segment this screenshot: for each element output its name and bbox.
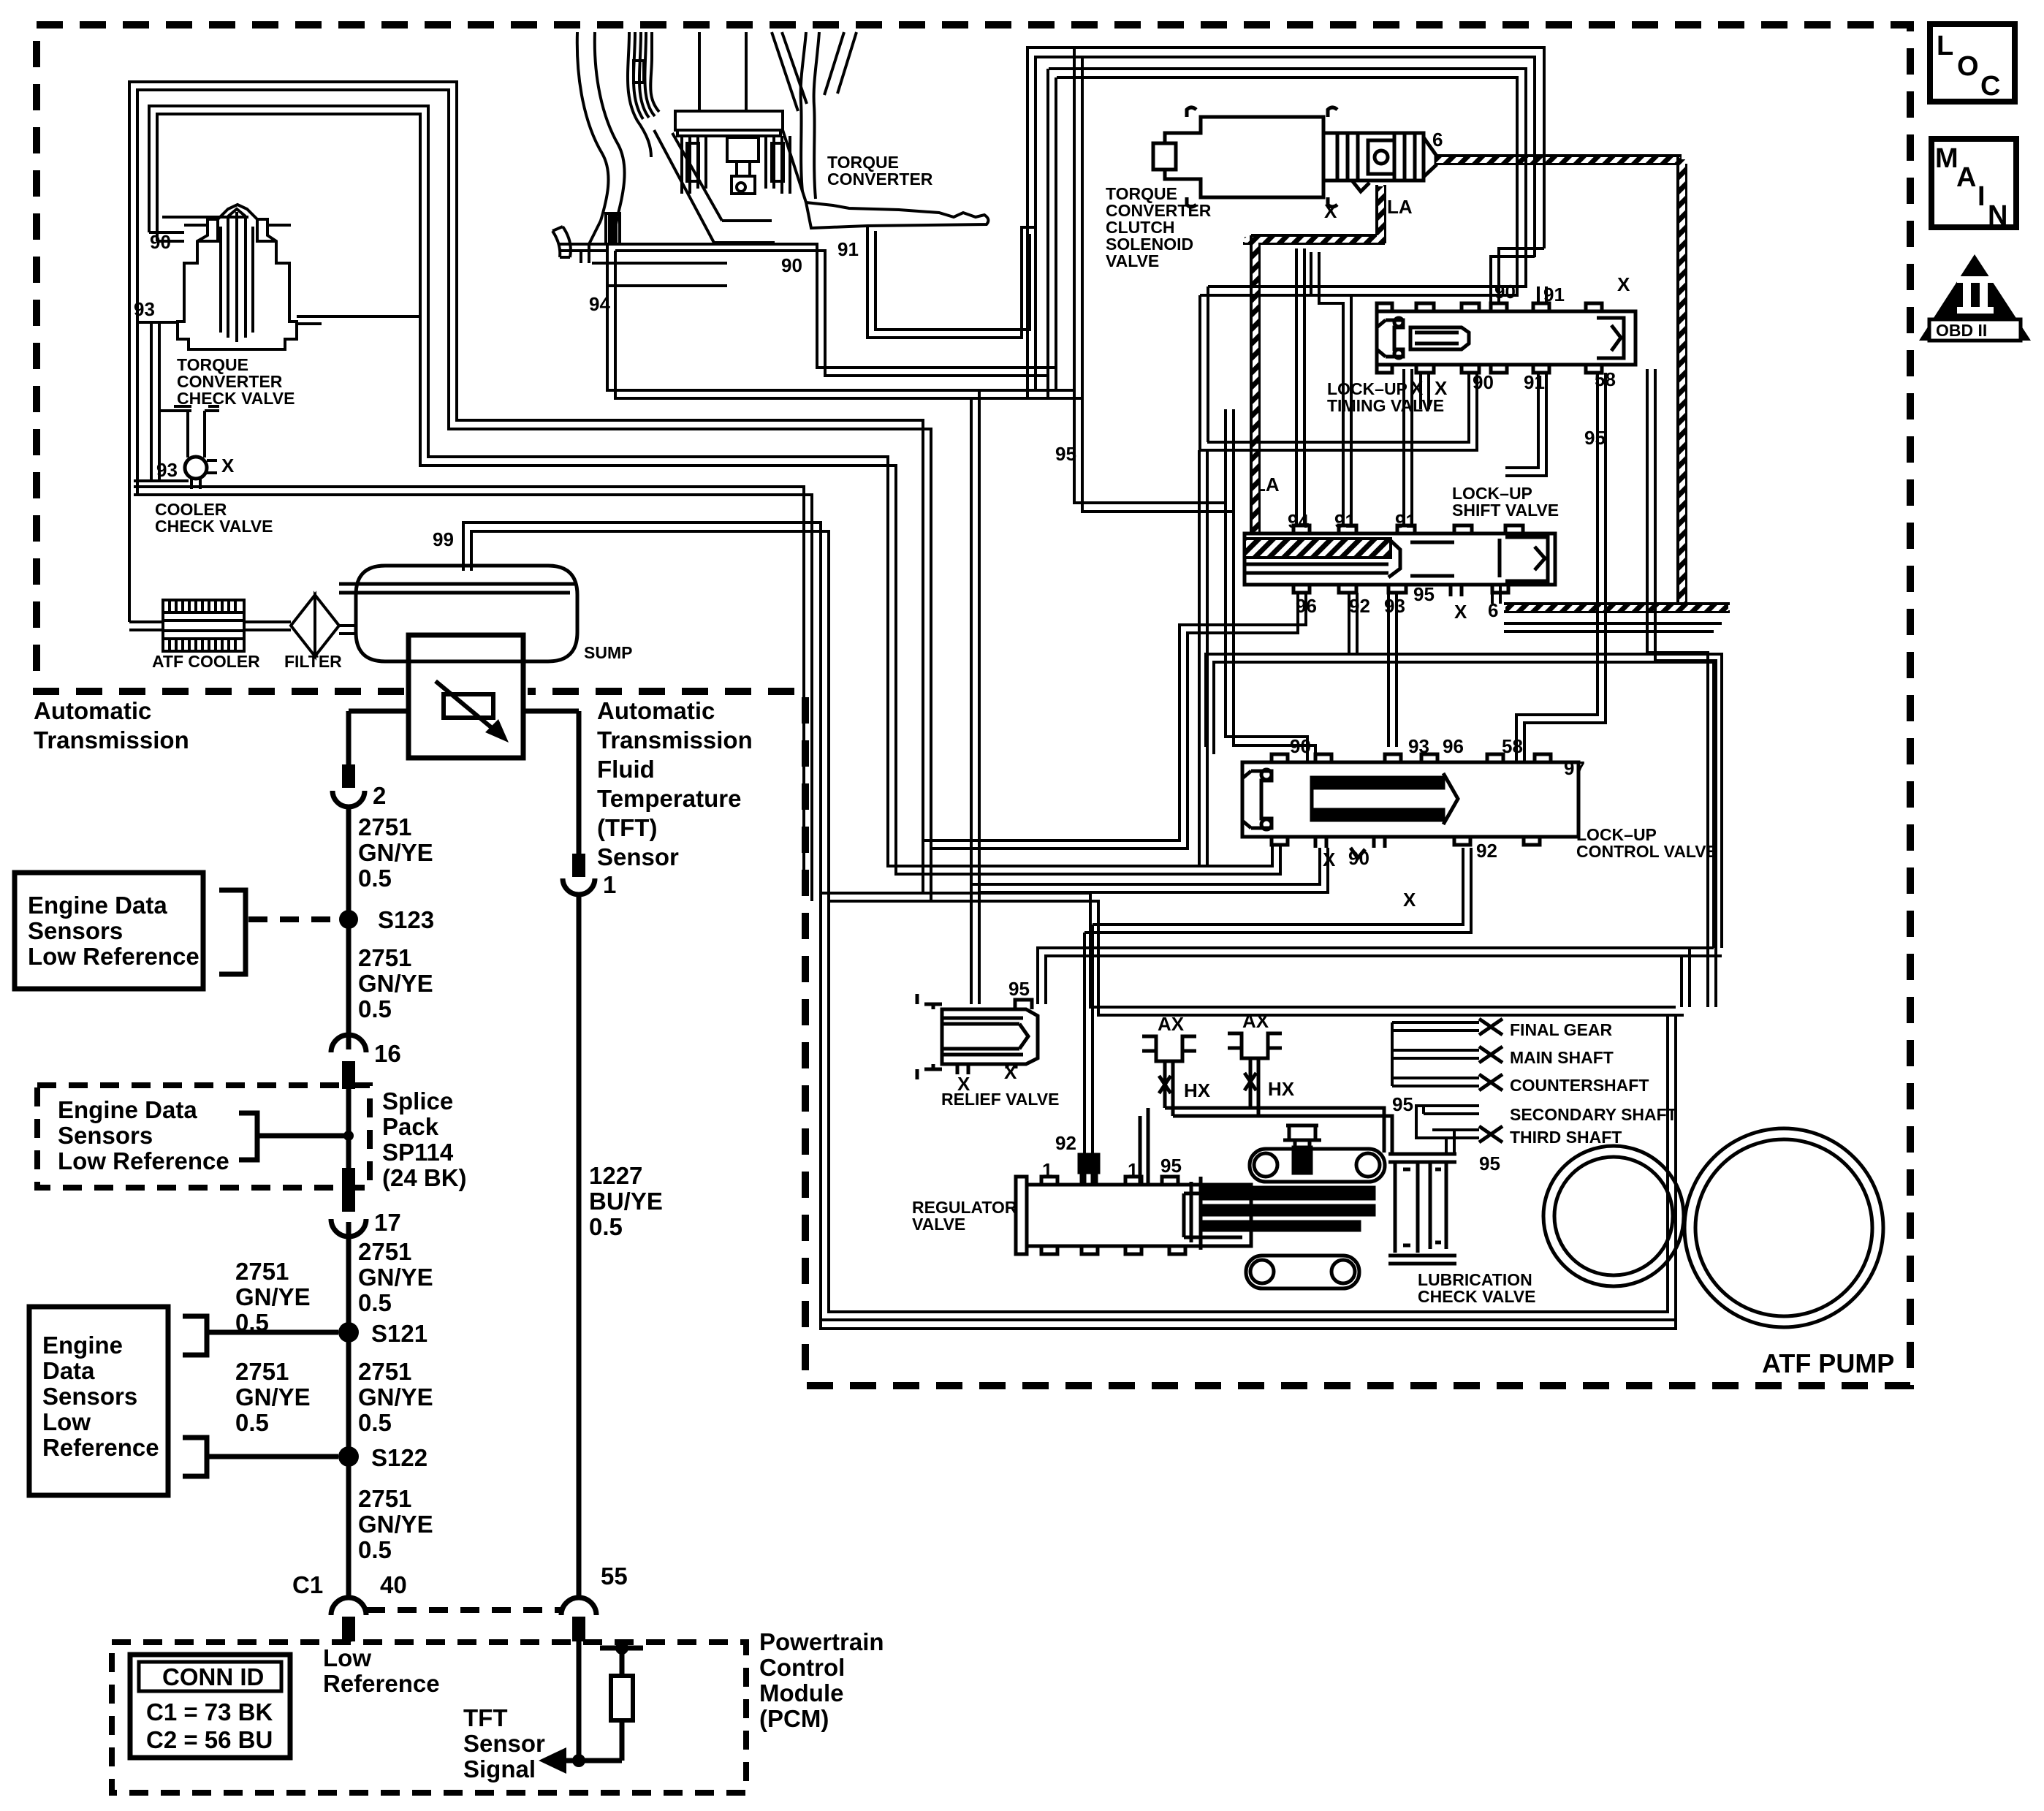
svg-text:2: 2: [373, 782, 386, 809]
svg-text:Automatic: Automatic: [597, 697, 715, 724]
svg-text:Sensor: Sensor: [463, 1730, 545, 1757]
svg-text:GN/YE: GN/YE: [235, 1283, 311, 1310]
svg-text:GN/YE: GN/YE: [358, 1264, 433, 1291]
svg-text:TIMING VALVE: TIMING VALVE: [1327, 396, 1444, 415]
svg-text:Splice: Splice: [382, 1087, 453, 1115]
svg-text:Engine Data: Engine Data: [28, 892, 167, 919]
svg-text:CHECK VALVE: CHECK VALVE: [177, 389, 295, 408]
svg-text:S121: S121: [371, 1320, 428, 1347]
svg-text:Fluid: Fluid: [597, 756, 655, 783]
svg-text:A: A: [1956, 162, 1976, 193]
svg-text:2751: 2751: [358, 1485, 411, 1512]
svg-text:Reference: Reference: [323, 1670, 440, 1697]
svg-text:Engine: Engine: [42, 1332, 123, 1359]
svg-text:16: 16: [374, 1040, 401, 1067]
svg-text:Sensors: Sensors: [42, 1383, 137, 1410]
svg-text:1227: 1227: [589, 1162, 642, 1189]
svg-text:SECONDARY SHAFT: SECONDARY SHAFT: [1510, 1105, 1677, 1124]
svg-text:2751: 2751: [358, 1238, 411, 1265]
svg-text:GN/YE: GN/YE: [358, 839, 433, 866]
svg-text:ATF COOLER: ATF COOLER: [152, 652, 260, 671]
svg-text:90: 90: [781, 254, 802, 276]
svg-text:LA: LA: [1387, 196, 1413, 218]
svg-text:Low Reference: Low Reference: [58, 1147, 229, 1174]
svg-text:Pack: Pack: [382, 1113, 439, 1140]
svg-text:HX: HX: [1184, 1079, 1211, 1101]
svg-text:17: 17: [374, 1209, 401, 1236]
svg-text:X: X: [1435, 377, 1448, 399]
svg-text:Sensor: Sensor: [597, 843, 679, 870]
svg-text:C1 = 73 BK: C1 = 73 BK: [146, 1698, 273, 1725]
svg-text:95: 95: [1392, 1093, 1413, 1115]
svg-text:SP114: SP114: [382, 1139, 454, 1166]
svg-text:Powertrain: Powertrain: [759, 1628, 884, 1655]
svg-text:GN/YE: GN/YE: [358, 970, 433, 997]
svg-text:Module: Module: [759, 1679, 843, 1706]
svg-text:C1: C1: [292, 1571, 323, 1598]
svg-text:Automatic: Automatic: [34, 697, 151, 724]
svg-text:0.5: 0.5: [358, 995, 392, 1022]
svg-text:I: I: [1977, 181, 1986, 212]
svg-text:Sensors: Sensors: [28, 917, 123, 944]
svg-text:OBD II: OBD II: [1936, 321, 1987, 340]
svg-text:CHECK VALVE: CHECK VALVE: [1418, 1287, 1535, 1306]
svg-text:94: 94: [1288, 510, 1309, 532]
svg-text:CONVERTER: CONVERTER: [827, 170, 933, 189]
svg-text:91: 91: [837, 238, 859, 260]
svg-text:C: C: [1980, 71, 2000, 102]
svg-text:55: 55: [601, 1563, 628, 1590]
svg-text:C2 = 56 BU: C2 = 56 BU: [146, 1726, 273, 1753]
svg-text:92: 92: [1349, 595, 1370, 617]
svg-text:N: N: [1988, 200, 2007, 231]
svg-text:CHECK VALVE: CHECK VALVE: [155, 517, 273, 536]
svg-text:Control: Control: [759, 1654, 845, 1681]
svg-text:GN/YE: GN/YE: [235, 1383, 311, 1411]
svg-text:COUNTERSHAFT: COUNTERSHAFT: [1510, 1076, 1649, 1095]
svg-text:VALVE: VALVE: [912, 1215, 965, 1234]
svg-text:X: X: [957, 1073, 970, 1095]
svg-text:VALVE: VALVE: [1106, 251, 1159, 270]
svg-text:X: X: [1403, 889, 1416, 911]
svg-text:GN/YE: GN/YE: [358, 1383, 433, 1411]
svg-text:95: 95: [1160, 1155, 1182, 1177]
svg-text:2751: 2751: [358, 813, 411, 840]
svg-text:Low: Low: [42, 1408, 91, 1435]
svg-text:(TFT): (TFT): [597, 814, 657, 841]
svg-text:0.5: 0.5: [235, 1409, 269, 1436]
svg-text:X: X: [1454, 601, 1467, 623]
svg-text:L: L: [1937, 31, 1953, 61]
svg-text:O: O: [1957, 51, 1979, 82]
svg-text:S122: S122: [371, 1444, 428, 1471]
svg-text:S123: S123: [378, 906, 434, 933]
svg-text:M: M: [1935, 143, 1958, 174]
svg-text:92: 92: [1476, 840, 1497, 862]
svg-text:2751: 2751: [358, 1358, 411, 1385]
svg-text:Temperature: Temperature: [597, 785, 741, 812]
svg-text:0.5: 0.5: [358, 1289, 392, 1316]
svg-text:1: 1: [603, 871, 616, 898]
svg-text:TFT: TFT: [463, 1704, 507, 1731]
svg-text:95: 95: [1584, 427, 1606, 449]
svg-text:AX: AX: [1242, 1010, 1269, 1032]
svg-text:Reference: Reference: [42, 1434, 159, 1461]
svg-text:SUMP: SUMP: [584, 643, 632, 662]
svg-text:X: X: [1617, 273, 1630, 295]
svg-text:0.5: 0.5: [358, 1409, 392, 1436]
svg-text:92: 92: [1055, 1132, 1076, 1154]
svg-text:ATF PUMP: ATF PUMP: [1762, 1348, 1894, 1378]
svg-text:40: 40: [380, 1571, 407, 1598]
svg-text:99: 99: [433, 528, 454, 550]
svg-text:BU/YE: BU/YE: [589, 1188, 663, 1215]
svg-text:2751: 2751: [235, 1258, 289, 1285]
svg-text:96: 96: [1443, 735, 1464, 757]
svg-text:CONTROL VALVE: CONTROL VALVE: [1576, 842, 1717, 861]
svg-text:Data: Data: [42, 1357, 95, 1384]
svg-text:0.5: 0.5: [358, 1536, 392, 1563]
svg-text:2751: 2751: [358, 944, 411, 971]
svg-text:Signal: Signal: [463, 1755, 536, 1782]
svg-text:0.5: 0.5: [358, 865, 392, 892]
svg-text:GN/YE: GN/YE: [358, 1511, 433, 1538]
svg-text:2751: 2751: [235, 1358, 289, 1385]
svg-text:Transmission: Transmission: [597, 726, 753, 753]
svg-text:6: 6: [1432, 129, 1443, 151]
svg-text:Transmission: Transmission: [34, 726, 189, 753]
svg-text:Low Reference: Low Reference: [28, 943, 200, 970]
svg-text:X: X: [221, 455, 235, 477]
svg-text:0.5: 0.5: [589, 1213, 623, 1240]
svg-text:Sensors: Sensors: [58, 1122, 153, 1149]
svg-text:(PCM): (PCM): [759, 1705, 829, 1732]
svg-text:MAIN SHAFT: MAIN SHAFT: [1510, 1048, 1614, 1067]
svg-text:CONN ID: CONN ID: [162, 1663, 264, 1690]
svg-text:FINAL GEAR: FINAL GEAR: [1510, 1020, 1613, 1039]
svg-text:Engine Data: Engine Data: [58, 1096, 197, 1123]
svg-text:SHIFT VALVE: SHIFT VALVE: [1452, 501, 1559, 520]
svg-text:95: 95: [1479, 1153, 1500, 1174]
svg-text:95: 95: [1008, 978, 1030, 1000]
svg-text:Low: Low: [323, 1644, 371, 1671]
svg-text:THIRD SHAFT: THIRD SHAFT: [1510, 1128, 1622, 1147]
svg-text:HX: HX: [1268, 1078, 1295, 1100]
svg-text:(24 BK): (24 BK): [382, 1164, 467, 1191]
